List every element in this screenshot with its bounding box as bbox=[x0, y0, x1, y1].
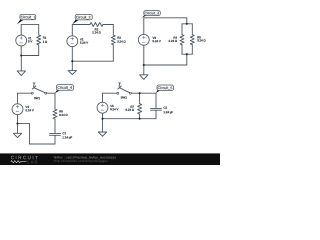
svg-text:5.24 V: 5.24 V bbox=[80, 41, 88, 45]
svg-text:Circuit_1: Circuit_1 bbox=[21, 15, 36, 19]
svg-text:3.24 Ω: 3.24 Ω bbox=[117, 40, 125, 44]
svg-text:2.24 Ω: 2.24 Ω bbox=[92, 30, 100, 34]
svg-text:2.24 Ω: 2.24 Ω bbox=[169, 39, 177, 43]
svg-text:Circuit_3: Circuit_3 bbox=[144, 11, 159, 15]
svg-text:1.24 µF: 1.24 µF bbox=[163, 110, 173, 114]
svg-text:6.24 Ω: 6.24 Ω bbox=[59, 113, 67, 117]
svg-text:5 V: 5 V bbox=[28, 39, 32, 43]
svg-text:5.24 V: 5.24 V bbox=[110, 107, 118, 111]
svg-text:http://circuitlab.com/c/5p43bn: http://circuitlab.com/c/5p43bnjdgcv bbox=[54, 159, 108, 163]
svg-text:SW1: SW1 bbox=[34, 96, 41, 100]
svg-text:6.24 Ω: 6.24 Ω bbox=[126, 108, 134, 112]
svg-text:5.24 V: 5.24 V bbox=[25, 108, 33, 112]
svg-text:3.24 Ω: 3.24 Ω bbox=[197, 38, 205, 42]
svg-text:C2: C2 bbox=[163, 106, 167, 110]
svg-text:Circuit_4: Circuit_4 bbox=[57, 86, 72, 90]
svg-text:1.24 µF: 1.24 µF bbox=[62, 135, 72, 139]
svg-text:Circuit_5: Circuit_5 bbox=[158, 86, 173, 90]
svg-text:5.24 V: 5.24 V bbox=[152, 39, 160, 43]
svg-text:LAB: LAB bbox=[27, 159, 38, 164]
svg-text:1 Ω: 1 Ω bbox=[43, 40, 48, 44]
svg-text:Circuit_2: Circuit_2 bbox=[76, 16, 91, 20]
svg-text:SW2: SW2 bbox=[121, 95, 128, 99]
